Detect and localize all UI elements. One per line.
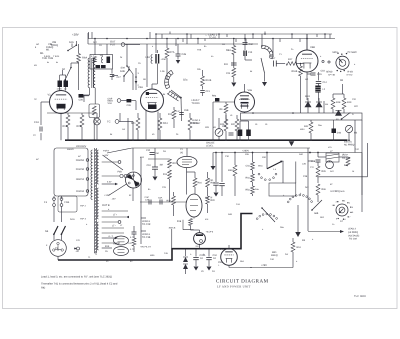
diode MR1A xyxy=(305,102,311,107)
svg-text:R44: R44 xyxy=(344,164,349,167)
switch S6A contact xyxy=(303,195,305,197)
svg-text:C13: C13 xyxy=(206,90,211,93)
wire xyxy=(297,228,299,232)
wire xyxy=(175,39,177,47)
terminal xyxy=(118,161,121,164)
svg-text:R33: R33 xyxy=(167,200,172,203)
capacitor C2A (paper) xyxy=(58,81,63,88)
wire xyxy=(297,205,299,228)
wire xyxy=(155,34,157,53)
tap terminal xyxy=(86,190,89,193)
svg-text:LEAD 6: LEAD 6 xyxy=(142,220,151,223)
svg-text:NC FREQ: NC FREQ xyxy=(344,144,355,147)
node junction xyxy=(317,152,319,154)
svg-text:FR: FR xyxy=(99,44,102,47)
svg-text:R8A: R8A xyxy=(226,49,231,52)
rotary dial S5 xyxy=(336,56,349,69)
wire xyxy=(332,94,334,98)
resistor R19 xyxy=(206,178,210,187)
transformer T2 core xyxy=(92,58,93,88)
capacitor C11 xyxy=(231,63,237,65)
wire xyxy=(111,69,113,74)
svg-text:V2A: V2A xyxy=(138,86,143,89)
node junction xyxy=(340,71,341,72)
wire xyxy=(197,39,199,45)
svg-text:LEAD 2: LEAD 2 xyxy=(348,228,357,231)
ground xyxy=(176,60,181,64)
fuse F4B xyxy=(120,174,128,177)
wire xyxy=(119,113,121,122)
capacitor C12 xyxy=(274,61,277,67)
wire xyxy=(329,161,331,162)
svg-text:7 kc/s: 7 kc/s xyxy=(53,55,60,58)
wire xyxy=(102,175,120,177)
wire xyxy=(173,205,175,216)
wire xyxy=(252,34,254,39)
svg-text:230/250: 230/250 xyxy=(76,159,85,162)
wire xyxy=(125,44,140,46)
wire xyxy=(240,120,249,122)
node junction xyxy=(218,33,220,35)
svg-text:LF AND POWER UNIT: LF AND POWER UNIT xyxy=(217,285,251,288)
svg-text:V1: V1 xyxy=(48,94,52,97)
svg-text:PC MW2: PC MW2 xyxy=(348,51,358,54)
wire xyxy=(279,39,281,43)
svg-text:AC: AC xyxy=(78,155,81,158)
wire xyxy=(199,230,201,233)
node junction xyxy=(310,139,312,141)
switch S6A contact xyxy=(287,201,289,203)
resistor R44 xyxy=(346,157,350,166)
wire xyxy=(202,93,204,97)
svg-text:P1: P1 xyxy=(55,247,59,250)
wire xyxy=(53,234,55,240)
svg-text:+28V: +28V xyxy=(261,264,267,267)
wire xyxy=(59,87,61,91)
capacitor C14 xyxy=(316,82,322,84)
svg-text:R5a: R5a xyxy=(246,189,251,192)
svg-text:R20: R20 xyxy=(211,199,216,202)
svg-text:kc: kc xyxy=(56,61,58,64)
svg-text:S1B: S1B xyxy=(120,70,125,73)
screened resistor box xyxy=(89,104,100,118)
wire xyxy=(333,93,344,95)
svg-text:C1A: C1A xyxy=(34,121,39,124)
svg-text:LT+: LT+ xyxy=(113,214,118,217)
resistor R24 xyxy=(158,118,162,130)
wire xyxy=(78,63,80,91)
node junction xyxy=(180,97,182,99)
node junction xyxy=(311,209,313,211)
dial S7 contact xyxy=(338,218,339,219)
wire xyxy=(94,88,96,104)
svg-text:R16B: R16B xyxy=(292,70,298,73)
wire xyxy=(127,118,129,140)
dial S7 contact xyxy=(342,200,343,201)
wire xyxy=(333,120,335,129)
wire xyxy=(252,182,254,186)
wire xyxy=(339,156,348,158)
svg-text:4.7V: 4.7V xyxy=(130,248,135,251)
switch S4B contact xyxy=(275,173,277,175)
wire xyxy=(234,176,236,196)
inductor L7 box xyxy=(326,153,339,162)
svg-text:200/250V: 200/250V xyxy=(76,145,87,148)
svg-text:R45: R45 xyxy=(322,170,327,173)
wire xyxy=(297,63,301,65)
tap terminal xyxy=(86,159,89,162)
svg-text:R24: R24 xyxy=(163,122,168,125)
svg-text:8: 8 xyxy=(345,218,346,221)
tube V10B (rectifier) xyxy=(114,247,129,256)
inductor L4A xyxy=(151,55,153,64)
tap terminal xyxy=(86,168,89,171)
node junction xyxy=(337,70,338,71)
svg-text:S1A: S1A xyxy=(69,41,74,44)
diode MR3A xyxy=(183,257,188,262)
wire xyxy=(53,207,55,223)
resistor R6A xyxy=(77,54,81,63)
wire xyxy=(221,186,223,196)
switch S6A contact xyxy=(299,194,301,196)
capacitor C3B xyxy=(156,54,159,64)
wire xyxy=(186,34,188,44)
wire xyxy=(121,100,127,102)
capacitor C6 (paper) xyxy=(107,57,111,64)
node junction xyxy=(128,69,130,71)
node junction xyxy=(344,70,345,71)
tube V1A xyxy=(50,91,73,114)
capacitor C16 xyxy=(311,73,316,75)
svg-text:+12V: +12V xyxy=(104,194,110,197)
diode MR3B xyxy=(183,264,188,269)
svg-text:1: 1 xyxy=(332,204,333,207)
switch S4B contact xyxy=(261,177,263,179)
svg-text:V3a: V3a xyxy=(248,89,253,92)
node junction xyxy=(177,38,179,40)
wire xyxy=(149,32,151,39)
switch S6A contact xyxy=(295,195,297,197)
tube V7A xyxy=(221,249,238,266)
wire xyxy=(208,249,210,257)
node junction xyxy=(233,38,235,40)
wire xyxy=(141,230,146,232)
svg-text:LT−: LT− xyxy=(112,225,117,228)
arrowhead xyxy=(126,216,129,218)
svg-text:R51: R51 xyxy=(297,246,302,249)
svg-text:TO C3B: TO C3B xyxy=(142,236,151,239)
svg-text:C32: C32 xyxy=(146,149,151,152)
resistor R2B xyxy=(80,115,84,127)
node junction xyxy=(189,139,191,141)
switch S4 blade A xyxy=(54,226,59,235)
resistor R10B xyxy=(201,76,205,86)
tube V10A (rectifier) xyxy=(114,236,129,245)
wire xyxy=(307,98,309,102)
svg-text:TO 10A: TO 10A xyxy=(349,238,357,241)
capacitor C38 xyxy=(316,160,321,162)
resistor R4b xyxy=(251,174,255,182)
wire xyxy=(140,201,186,203)
wire xyxy=(148,158,170,160)
switch S1B xyxy=(127,66,133,74)
wire xyxy=(166,39,168,49)
resistor R32A xyxy=(233,165,237,176)
node junction xyxy=(67,139,69,141)
wire xyxy=(204,39,206,42)
wire xyxy=(187,171,196,173)
resistor R46 xyxy=(316,184,320,195)
capacitor C30 xyxy=(243,43,248,45)
wire xyxy=(61,196,63,199)
switch S2A wiper xyxy=(171,90,181,98)
diode MR1B xyxy=(316,102,322,107)
wire xyxy=(306,72,308,100)
capacitor C32 xyxy=(150,153,155,155)
wire xyxy=(102,237,116,239)
node junction xyxy=(221,152,223,154)
wire xyxy=(195,260,197,266)
switch S2A second bank xyxy=(167,91,181,101)
wire xyxy=(225,102,227,104)
grid cap blob xyxy=(146,92,149,95)
node junction xyxy=(126,65,128,67)
svg-text:TO C2R: TO C2R xyxy=(142,223,151,226)
transformer T1 primary winding xyxy=(91,150,93,200)
resistor R45B xyxy=(316,166,320,177)
wire xyxy=(87,33,89,44)
wire xyxy=(171,229,173,249)
wire xyxy=(96,125,98,140)
svg-text:R16: R16 xyxy=(198,182,203,185)
svg-text:5: 5 xyxy=(352,206,353,209)
switch S4 blade B xyxy=(61,226,66,235)
switch housing box xyxy=(269,183,296,196)
wire xyxy=(317,153,319,158)
wire xyxy=(218,118,220,129)
transformer T1 secondary winding C xyxy=(97,222,99,250)
wire xyxy=(102,210,128,212)
node junction xyxy=(186,33,188,35)
wire xyxy=(233,55,235,69)
wire (diagonal lead) xyxy=(107,148,132,153)
dial S7 contact xyxy=(343,219,344,220)
node junction xyxy=(264,33,266,35)
wire xyxy=(244,84,246,92)
svg-text:D40: D40 xyxy=(337,132,342,135)
node junction xyxy=(61,233,63,235)
wire xyxy=(295,162,297,184)
resistor R5a xyxy=(251,186,255,194)
capacitor C36B xyxy=(132,232,137,234)
node junction xyxy=(346,53,347,54)
wire xyxy=(292,252,294,268)
wire xyxy=(236,115,238,119)
wire xyxy=(318,72,320,81)
node junction xyxy=(155,33,157,35)
node junction xyxy=(333,139,335,141)
resistor R26 xyxy=(224,119,228,131)
wire xyxy=(133,226,135,232)
wire xyxy=(102,247,112,249)
wire xyxy=(154,169,156,176)
wire xyxy=(225,131,227,140)
wire xyxy=(131,100,136,102)
ground xyxy=(262,82,267,86)
wire xyxy=(180,98,183,122)
wire xyxy=(177,44,179,48)
arrowhead xyxy=(115,237,118,239)
wire xyxy=(159,130,161,140)
svg-text:2W: 2W xyxy=(285,253,288,256)
svg-text:R4a: R4a xyxy=(246,177,251,180)
wire xyxy=(264,32,266,35)
screened box xyxy=(241,113,363,120)
wire xyxy=(123,76,125,82)
svg-text:7: 7 xyxy=(349,216,350,219)
svg-text:LEAD 6: LEAD 6 xyxy=(142,233,151,236)
wire xyxy=(157,112,159,141)
svg-text:OUT B: OUT B xyxy=(102,204,110,207)
wire xyxy=(166,58,168,80)
wire xyxy=(173,107,175,110)
svg-text:S4: S4 xyxy=(45,230,49,233)
wire xyxy=(102,216,126,218)
svg-text:C2B: C2B xyxy=(182,53,187,56)
wire xyxy=(106,44,108,55)
capacitor C7A (paper) xyxy=(96,65,101,68)
svg-text:R42: R42 xyxy=(304,125,309,128)
switch S6A contact xyxy=(311,201,313,203)
wire xyxy=(154,159,156,167)
wire xyxy=(324,34,326,39)
wire xyxy=(88,38,335,40)
wire xyxy=(318,156,326,158)
svg-text:3: 3 xyxy=(344,200,345,203)
svg-text:C8A: C8A xyxy=(158,197,163,200)
resistor R51 xyxy=(291,242,295,252)
wire xyxy=(266,153,268,169)
wire xyxy=(308,160,313,162)
wire xyxy=(140,157,142,244)
svg-text:400 (A): 400 (A) xyxy=(344,141,352,144)
screen wiring box xyxy=(183,220,194,230)
wire xyxy=(213,101,235,103)
wire xyxy=(70,63,72,68)
wire xyxy=(102,227,124,229)
node junction xyxy=(94,38,96,40)
inductor L3 xyxy=(101,57,103,63)
svg-text:R1B: R1B xyxy=(63,125,68,128)
wire xyxy=(145,110,147,140)
wire xyxy=(245,39,247,45)
wire xyxy=(291,34,293,39)
wire xyxy=(361,152,363,154)
wire xyxy=(154,148,156,159)
wire xyxy=(261,34,263,47)
wire xyxy=(84,95,90,97)
rotary dial S7 xyxy=(336,204,348,216)
wire xyxy=(88,43,258,45)
svg-text:6V3: 6V3 xyxy=(105,245,110,248)
wire xyxy=(264,73,266,82)
svg-text:R32A: R32A xyxy=(228,169,234,172)
wire xyxy=(84,94,90,96)
svg-text:C28: C28 xyxy=(79,99,84,102)
wire xyxy=(156,33,332,35)
switch S6A contact xyxy=(289,198,291,200)
switch S2 blade xyxy=(65,68,71,81)
dial S7 contact xyxy=(337,201,338,202)
terminal earth xyxy=(77,247,80,250)
switch S6 contact xyxy=(266,213,268,215)
svg-text:C38: C38 xyxy=(311,160,316,163)
svg-text:R6A: R6A xyxy=(82,57,87,60)
fuse housing box xyxy=(58,196,77,212)
tube V1A cathode block xyxy=(57,104,66,109)
ground xyxy=(153,177,158,181)
wire xyxy=(228,265,230,267)
svg-text:S6B: S6B xyxy=(314,212,319,215)
node junction xyxy=(292,112,294,114)
resistor R18 xyxy=(189,219,193,226)
wire xyxy=(193,217,195,219)
wire xyxy=(89,88,91,95)
svg-text:C17: C17 xyxy=(271,57,276,60)
resistor R25 xyxy=(188,118,192,130)
node junction xyxy=(76,44,78,46)
capacitor C28A (paper) xyxy=(79,94,84,98)
rotary switch S3A xyxy=(261,46,273,59)
wire xyxy=(75,41,77,45)
terminal xyxy=(118,221,121,224)
svg-text:MO2: MO2 xyxy=(333,51,339,54)
wire xyxy=(127,175,133,177)
resistor R4a xyxy=(251,162,255,170)
wire xyxy=(221,153,223,183)
wire xyxy=(318,100,321,102)
wire xyxy=(207,172,209,178)
svg-text:TO R2: TO R2 xyxy=(209,37,217,40)
terminal CAP MOD xyxy=(117,99,121,103)
wire xyxy=(212,153,214,161)
wire xyxy=(65,75,67,81)
svg-text:C9B: C9B xyxy=(184,109,189,112)
node junction xyxy=(261,207,263,209)
wire xyxy=(161,34,163,39)
svg-text:Lead 1, lead 3, etc. are conne: Lead 1, lead 3, etc. are connected to R.… xyxy=(41,276,112,279)
ground xyxy=(211,166,216,170)
wire xyxy=(306,34,308,50)
svg-text:MR1: MR1 xyxy=(305,95,311,98)
wire xyxy=(141,217,146,219)
svg-text:NO: NO xyxy=(36,43,40,46)
wire xyxy=(318,93,320,101)
wire xyxy=(292,238,294,242)
fuse F1 xyxy=(53,198,56,207)
wire xyxy=(307,148,309,231)
capacitor C24 xyxy=(229,133,234,135)
transformer T2 primary winding xyxy=(88,58,90,88)
wire xyxy=(226,34,228,37)
svg-text:R4): R4) xyxy=(41,287,45,290)
ground xyxy=(207,267,212,271)
svg-text:2M: 2M xyxy=(163,150,166,153)
svg-text:→6V: →6V xyxy=(74,250,79,253)
meter M1 xyxy=(215,129,223,137)
svg-text:5 kc/s: 5 kc/s xyxy=(44,55,51,58)
wire xyxy=(343,109,345,113)
